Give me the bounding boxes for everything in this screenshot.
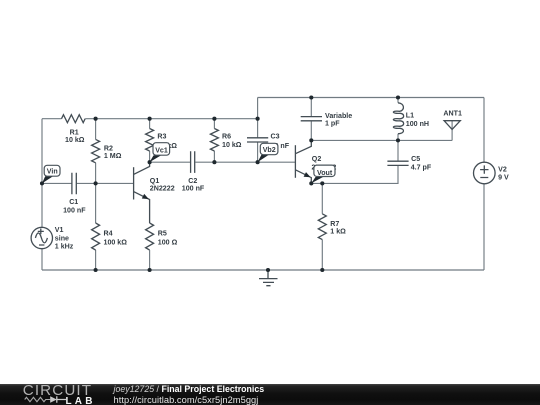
svg-text:100 nH: 100 nH [406,120,429,128]
transistor Q1 [134,162,150,223]
resistor R6 [210,129,218,151]
svg-text:10 kΩ: 10 kΩ [65,136,85,144]
svg-text:R3: R3 [157,133,166,141]
capacitor variable 1pF [301,117,322,121]
svg-text:L1: L1 [406,112,414,120]
wire top rail (upper) [258,97,484,99]
transistor Q2 [295,140,311,183]
node Vout [311,165,335,183]
svg-text:C3: C3 [271,133,280,141]
junction R1/R2 top [94,117,98,121]
wire C3 leads [257,98,259,163]
svg-text:100 nF: 100 nF [63,206,86,214]
svg-text:1 kHz: 1 kHz [55,243,74,251]
footer bar [0,384,540,405]
svg-text:sine: sine [55,235,69,243]
wire R5 bottom lead [149,250,151,270]
wire Vin rail right to Q1 base [77,182,134,184]
junction L1 top [396,95,400,99]
resistor R5 [146,223,154,250]
wire bottom rail [42,269,484,271]
capacitor C1 [72,173,76,195]
junction R3 top [148,117,152,121]
svg-text:Vc1: Vc1 [155,147,168,155]
svg-text:100 Ω: 100 Ω [158,239,178,247]
antenna ANT1 [444,121,460,141]
svg-text:9 V: 9 V [498,174,509,182]
svg-text:Vb2: Vb2 [263,146,276,154]
svg-text:1 kΩ: 1 kΩ [330,227,346,235]
capacitor C5 [397,140,399,161]
node Vb2 junction [256,160,260,164]
junction ground [266,268,270,272]
resistor R3 [146,129,154,151]
voltage source V2 [483,98,485,271]
ground [259,270,278,286]
svg-text:Vin: Vin [47,167,58,175]
node Vin junction [40,181,44,185]
svg-text:Q2: Q2 [312,155,322,163]
svg-text:10 kΩ: 10 kΩ [222,141,242,149]
wire R2 leads [95,119,97,184]
wire rail1 left lead [42,118,62,120]
node Vb2 [258,143,278,162]
wire R7 leads [321,183,323,270]
wire mid collector line [150,161,190,163]
capacitor C3 [247,138,268,142]
wire left rail [41,119,43,270]
svg-text:1 pF: 1 pF [325,120,340,128]
capacitor C2 [191,151,195,173]
junction variable cap top [309,95,313,99]
svg-text:R1: R1 [70,128,79,136]
voltage source V1 [31,227,52,248]
junction R7 top [320,181,324,185]
wire Vin rail left [42,182,72,184]
svg-text:C5: C5 [411,155,420,163]
svg-text:R2: R2 [104,144,113,152]
wire R6 leads [213,119,215,163]
svg-text:V2: V2 [498,165,507,173]
svg-text:R6: R6 [222,132,231,140]
svg-text:V1: V1 [55,226,64,234]
wire rail1 right [85,118,257,120]
resistor R1 [62,115,86,123]
svg-text:1 MΩ: 1 MΩ [104,152,122,160]
junction R7 bottom [320,268,324,272]
junction R6 top [212,117,216,121]
svg-text:R4: R4 [104,230,113,238]
junction R6 bottom [212,160,216,164]
svg-text:100 nF: 100 nF [182,185,205,193]
wire Vout line [311,166,398,184]
junction R2/R4 mid [94,181,98,185]
node Vc1 junction [148,160,152,164]
wire Q2 collector rail [311,139,452,141]
circuitlab logo [23,382,92,399]
svg-text:2N2222: 2N2222 [150,185,175,193]
node Vin [42,165,60,183]
junction Q2 collector [309,138,313,142]
wire R3 leads [149,119,151,163]
node Vc1 [150,143,170,162]
junction R5 bottom [148,268,152,272]
wire R4 leads [95,183,97,270]
svg-text:R5: R5 [158,230,167,238]
svg-text:ANT1: ANT1 [443,110,462,118]
svg-text:100 kΩ: 100 kΩ [104,239,128,247]
wire variable cap leads [310,98,312,141]
svg-text:C1: C1 [69,198,78,206]
resistor R4 [92,223,100,250]
resistor R2 [92,139,100,162]
junction C3 top [256,117,260,121]
wire mid to Q2 base [195,161,295,163]
svg-text:Vout: Vout [317,169,333,177]
resistor R7 [318,214,326,240]
svg-text:4.7 pF: 4.7 pF [411,164,432,172]
inductor L1 [397,98,399,141]
junction L1/C5 [396,138,400,142]
node Vout junction [309,181,313,185]
junction R4 bottom [94,268,98,272]
